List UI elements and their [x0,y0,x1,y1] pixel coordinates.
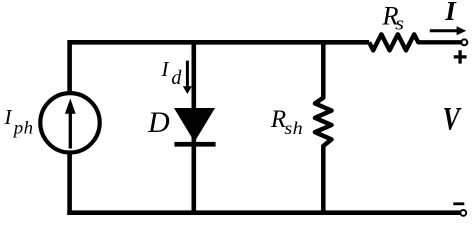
svg-text:V: V [443,102,462,138]
svg-text:D: D [147,106,170,139]
svg-text:I: I [4,105,13,129]
terminal + (top right, open circle) [461,39,467,45]
resistor R_s [369,34,461,50]
svg-text:s: s [395,14,404,34]
arrow I_d (downward) [186,61,189,88]
svg-text:I: I [161,57,170,81]
svg-text:I: I [444,0,457,26]
wire: diode branch vertical [192,42,197,212]
arrow I (rightward) [430,29,458,32]
diode D cathode bar [174,142,215,147]
wire: bottom bus [67,210,460,215]
svg-text:d: d [171,67,182,89]
svg-text:sh: sh [284,119,303,139]
minus sign [453,202,464,205]
resistor R_sh [315,42,332,212]
current source arrow [69,112,72,149]
svg-text:ph: ph [12,118,34,137]
terminal - (bottom right, open circle) [460,210,466,216]
diode D triangle [174,108,215,142]
wire: top bus from left corner to Rs [70,42,370,215]
current source I_ph circle [40,93,99,152]
plus sign [454,50,467,63]
